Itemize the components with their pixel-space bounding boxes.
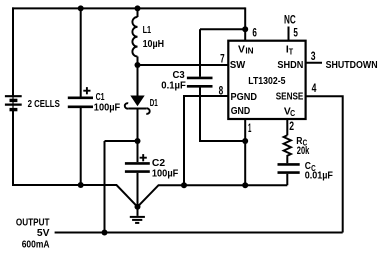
svg-text:V: V <box>238 44 245 55</box>
svg-text:L1: L1 <box>143 25 152 36</box>
svg-text:SHUTDOWN: SHUTDOWN <box>326 60 378 71</box>
svg-text:IN: IN <box>245 47 253 56</box>
svg-text:100µF: 100µF <box>152 168 178 179</box>
svg-text:8: 8 <box>219 83 224 97</box>
svg-text:T: T <box>289 47 293 56</box>
svg-text:1: 1 <box>248 121 252 135</box>
svg-text:10µH: 10µH <box>143 39 165 50</box>
svg-text:600mA: 600mA <box>22 239 50 250</box>
svg-text:7: 7 <box>220 51 225 65</box>
svg-text:5: 5 <box>293 26 298 40</box>
svg-text:PGND: PGND <box>231 92 258 103</box>
svg-text:100µF: 100µF <box>94 102 120 113</box>
svg-text:C1: C1 <box>96 92 105 103</box>
svg-text:5V: 5V <box>37 228 50 239</box>
svg-text:LT1302-5: LT1302-5 <box>248 76 285 87</box>
svg-text:SENSE: SENSE <box>276 92 304 103</box>
svg-text:SHDN: SHDN <box>277 60 303 71</box>
svg-text:4: 4 <box>312 81 317 95</box>
svg-text:C: C <box>303 139 308 148</box>
svg-text:3: 3 <box>311 49 316 63</box>
svg-text:0.1µF: 0.1µF <box>161 80 186 91</box>
svg-text:C: C <box>311 164 316 173</box>
svg-text:C: C <box>290 109 295 118</box>
svg-text:SW: SW <box>230 60 246 71</box>
svg-text:2: 2 <box>289 119 294 133</box>
svg-text:D1: D1 <box>150 98 158 109</box>
svg-text:2 CELLS: 2 CELLS <box>28 99 60 110</box>
svg-text:OUTPUT: OUTPUT <box>16 217 50 228</box>
svg-text:0.01µF: 0.01µF <box>305 171 333 182</box>
svg-text:GND: GND <box>231 106 251 117</box>
svg-text:6: 6 <box>252 26 257 40</box>
svg-text:C2: C2 <box>152 158 165 169</box>
